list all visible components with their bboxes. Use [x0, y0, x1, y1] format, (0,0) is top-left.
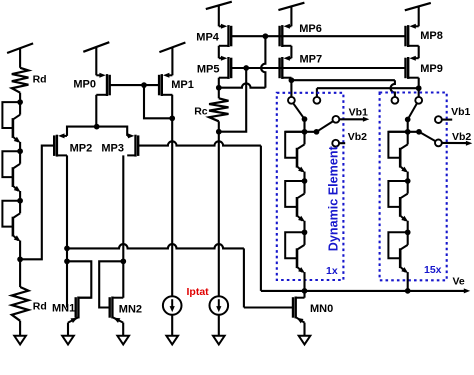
switch input circle 1 (right box): [392, 97, 399, 104]
svg-text:Rd: Rd: [33, 300, 47, 312]
node left-chain bottom: [17, 256, 23, 262]
wire MP4 drain - MP5 source: [218, 46, 220, 58]
pmos MP0: [96, 73, 109, 96]
svg-text:Vb2: Vb2: [348, 131, 367, 143]
bjt Q1 (left diode chain): [2, 102, 20, 143]
bjt QA1 (1x dynamic element): [285, 132, 305, 173]
pmos MP9: [406, 56, 419, 79]
nmos MN2: [110, 297, 124, 323]
node Vb switch pole (left box): [314, 129, 320, 135]
wire pole to chain (left box): [303, 119, 305, 132]
switch input circle 2 (right box): [415, 97, 422, 104]
wire chain to Rd bottom: [19, 259, 21, 287]
bjt QB3 (15x dynamic element): [388, 232, 408, 273]
label Rc: [194, 106, 208, 118]
power supply rail (MP4): [206, 2, 232, 27]
node Vb switch pole (right box): [416, 129, 422, 135]
node left-chain 1: [17, 99, 23, 105]
wire MP5 drain to Rc: [218, 78, 220, 88]
node MP1 drain: [169, 115, 175, 121]
power supply rail (MP0): [83, 42, 109, 75]
ground (MN0): [299, 336, 311, 345]
wire MP9 drain to left box input 2: [317, 88, 419, 97]
label MP9: [420, 63, 443, 75]
wire MP5-MP7-MP9 gate line: [230, 67, 406, 69]
bjt QB1 (15x dynamic element): [388, 132, 408, 173]
wire gate-drain tie MP1: [144, 85, 172, 118]
node chain top (right box): [405, 129, 411, 135]
wire MP1 drain to Iptat1: [171, 95, 173, 296]
svg-text:MP4: MP4: [196, 31, 220, 43]
svg-text:MP1: MP1: [171, 79, 194, 91]
label Iptat: [187, 286, 210, 298]
wire MP5 gate tie: [219, 68, 246, 132]
switch arm 1 (left box): [293, 103, 305, 119]
wire MP7 drain: [290, 78, 292, 81]
pmos MP2: [54, 133, 67, 156]
svg-text:MP2: MP2: [70, 143, 93, 155]
node MP3 drain: [120, 258, 126, 264]
wire MP2 drain: [66, 155, 68, 307]
wire MP9 drain: [418, 78, 420, 89]
label MP1: [171, 79, 194, 91]
label MP0: [73, 79, 96, 91]
svg-text:15x: 15x: [424, 264, 442, 276]
wire MP7 drain to left box input 1: [290, 80, 292, 97]
power supply rail (left Rd): [7, 43, 33, 67]
wire Iptat2 to ground: [218, 315, 220, 336]
wire Vb1 stub (right box): [442, 119, 452, 121]
label Vb2 (right box): [452, 131, 471, 143]
dynamic element box 15x: [380, 93, 447, 281]
node MP0-MP1 gate: [141, 82, 147, 88]
pmos MP6: [280, 24, 292, 47]
terminal Vb2 (left box): [332, 140, 339, 147]
ground (left Rd): [14, 336, 26, 345]
node Rc top: [216, 85, 222, 91]
power supply rail (MP8): [405, 3, 431, 26]
terminal Vb1 (right box): [435, 116, 442, 123]
wire MP9 drain to right box input 2: [418, 88, 420, 97]
wire Rd to chain: [19, 93, 21, 102]
svg-text:MP0: MP0: [73, 79, 96, 91]
resistor Rd (top): [12, 68, 29, 93]
svg-text:Vb1: Vb1: [349, 107, 368, 119]
node chain top (left box): [302, 129, 308, 135]
wire left chain main: [19, 102, 21, 259]
resistor Rc: [209, 98, 228, 121]
svg-text:MN0: MN0: [310, 303, 333, 315]
svg-text:Dynamic Element: Dynamic Element: [327, 145, 341, 251]
node switch pole (right box): [405, 117, 411, 123]
pmos MP8: [406, 24, 419, 47]
bjt QB2 (15x dynamic element): [388, 181, 408, 222]
wire MN2 source: [122, 323, 124, 336]
svg-text:MP8: MP8: [420, 30, 443, 42]
svg-text:Rc: Rc: [194, 106, 208, 118]
terminal Vb2 (right box): [435, 140, 442, 147]
switch arm 2 to Vb1 (left box): [317, 121, 334, 132]
bjt Q2 (left diode chain): [2, 151, 20, 192]
label MP8: [420, 30, 443, 42]
nmos MN0: [293, 297, 305, 324]
svg-text:Iptat: Iptat: [187, 286, 210, 298]
svg-text:Vb1: Vb1: [451, 106, 470, 118]
wire Ve line: [261, 288, 470, 293]
svg-text:MP7: MP7: [300, 54, 323, 66]
switch arm 2 to Vb2 (right box): [419, 132, 436, 142]
wire Rc top horizontal (hop over x246): [219, 83, 266, 87]
resistor Rd (bottom): [12, 287, 29, 321]
svg-text:1x: 1x: [326, 265, 338, 277]
node left-chain 3: [17, 198, 23, 204]
node Rc bottom: [216, 129, 222, 135]
wire MN1 source: [67, 323, 69, 336]
wire MP3 drain: [122, 155, 124, 297]
power supply rail (MP1): [159, 43, 185, 76]
node MP5 gate: [243, 65, 249, 71]
svg-text:MN1: MN1: [52, 302, 75, 314]
ground (Iptat2): [213, 336, 225, 345]
svg-text:MP3: MP3: [101, 143, 124, 155]
label 1x: [326, 265, 338, 277]
power supply rail (MP6): [278, 3, 304, 27]
pmos MP3: [127, 133, 138, 156]
node MP2 drain / line A: [64, 246, 70, 252]
label Vb1 (right box): [451, 106, 470, 118]
wire right box chain main: [407, 132, 409, 291]
switch input circle 1 (left box): [288, 97, 295, 104]
svg-text:MP9: MP9: [420, 63, 443, 75]
pmos MP7: [280, 56, 292, 79]
wire tail line: [67, 127, 127, 136]
svg-text:Ve: Ve: [453, 275, 465, 287]
wire MP8 drain - MP9 source: [418, 46, 420, 58]
label MP5: [197, 64, 220, 76]
bjt QA2 (1x dynamic element): [285, 181, 305, 222]
node MP7 drain: [289, 77, 295, 83]
node 15x chain 2: [405, 178, 411, 184]
svg-text:Vb2: Vb2: [452, 131, 471, 143]
label MN1: [52, 302, 75, 314]
node Ve / 1x chain: [302, 288, 308, 294]
label MP3: [101, 143, 124, 155]
node MP9 drain: [416, 85, 422, 91]
current source Iptat 2: [210, 296, 229, 315]
wire MN2 gate tie: [99, 261, 123, 307]
label Rd bottom: [33, 300, 47, 312]
ground (Iptat1): [166, 336, 178, 345]
label Vb2 (left box): [348, 131, 367, 143]
label MP7: [300, 54, 323, 66]
wire Iptat1 to ground: [171, 315, 173, 336]
svg-text:Rd: Rd: [33, 73, 47, 85]
wire MP6 drain - MP7 source: [290, 46, 292, 58]
wire MN1 drain tie: [67, 261, 91, 297]
wire Vb1 arrow (left box): [339, 117, 369, 122]
label MP2: [70, 143, 93, 155]
node Ve / 15x chain: [405, 288, 411, 294]
current source Iptat 1: [163, 296, 182, 315]
wire MP2 gate: [20, 146, 55, 260]
wire MN0 source: [303, 323, 305, 336]
label Rd top: [33, 73, 47, 85]
pmos MP1: [159, 73, 172, 96]
node tail: [94, 124, 100, 130]
bjt Q3 (left diode chain): [2, 201, 20, 242]
wire MP7 drain to right box input 1: [291, 80, 395, 97]
ground (MN1): [62, 336, 74, 345]
label MP4: [196, 31, 220, 43]
label MN0: [310, 303, 333, 315]
label Vb1 (left box): [349, 107, 368, 119]
label Dynamic Element: [327, 145, 341, 251]
label 15x: [424, 264, 442, 276]
wire Rd bottom to ground: [19, 321, 21, 336]
wire line A (to MN0 gate): [67, 244, 294, 307]
bjt QA3 (1x dynamic element): [285, 232, 305, 273]
node MP2 drain / MN1: [64, 258, 70, 264]
ground (MN2): [117, 336, 129, 345]
wire MP0 drain to tail: [95, 95, 97, 127]
node switch pole (left box): [302, 116, 308, 122]
wire Vb2 arrow (right box): [442, 141, 473, 146]
wire MP3 gate line (to Ve): [138, 141, 261, 291]
svg-text:MP5: MP5: [197, 64, 220, 76]
pmos MP5: [219, 56, 231, 79]
wire MN0 drain: [303, 291, 305, 298]
label MP6: [299, 23, 322, 35]
node left-chain 2: [17, 148, 23, 154]
node MP4 gate: [263, 33, 269, 39]
wire Vb2 stub (left box): [339, 142, 345, 144]
wire pole to chain (right box): [407, 120, 409, 132]
wire Rc bottom to Iptat2: [218, 132, 220, 297]
wire bias node horizontal (right box): [388, 131, 419, 133]
node 1x chain 3: [302, 229, 308, 235]
node 1x chain 2: [302, 178, 308, 184]
wire Rc leads: [218, 88, 220, 132]
dynamic element box 1x: [277, 93, 344, 280]
nmos MN1: [68, 297, 91, 324]
wire left box chain main: [303, 132, 305, 291]
terminal Vb1 (left box): [333, 116, 340, 123]
wire MP4-MP6-MP8 gate line: [230, 35, 406, 37]
wire MP0-MP1 gate line: [109, 84, 160, 86]
wire MP4 gate to Rc top (vertical w/ hop): [261, 36, 265, 87]
svg-text:MP6: MP6: [299, 23, 322, 35]
wire bias node horizontal (left box): [285, 131, 316, 133]
switch arm 1 (right box): [408, 103, 417, 119]
svg-text:MN2: MN2: [119, 303, 142, 315]
node 15x chain 3: [405, 229, 411, 235]
switch input circle 2 (left box): [314, 97, 321, 104]
pmos MP4: [219, 24, 231, 47]
label MN2: [119, 303, 142, 315]
label Ve: [453, 275, 465, 287]
